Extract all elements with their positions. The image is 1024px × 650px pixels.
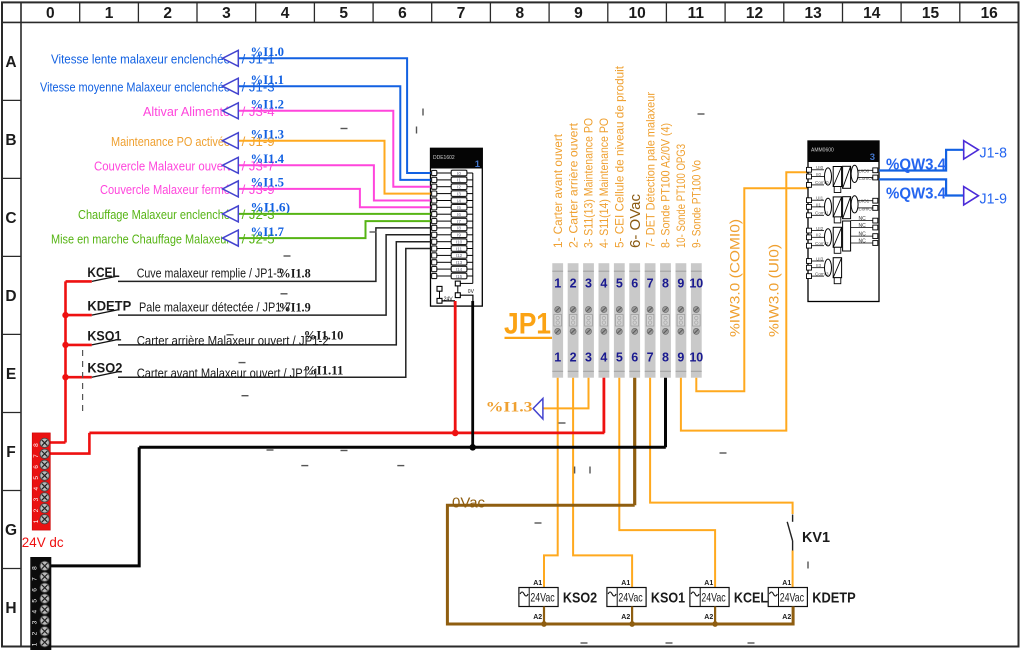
svg-text:1: 1 [33, 519, 40, 523]
svg-text:1: 1 [105, 5, 114, 22]
svg-text:I6: I6 [457, 212, 461, 217]
svg-text:3: 3 [33, 497, 40, 501]
svg-text:UI2: UI2 [816, 226, 824, 231]
svg-text:UI0: UI0 [816, 165, 824, 170]
svg-text:4: 4 [281, 5, 290, 22]
svg-text:4: 4 [600, 277, 607, 291]
svg-text:I14: I14 [456, 267, 463, 272]
svg-text:H: H [5, 600, 16, 617]
svg-text:A1: A1 [533, 580, 542, 587]
svg-text:KV1: KV1 [802, 530, 830, 546]
svg-text:3- S11(13) Maintenance PO: 3- S11(13) Maintenance PO [582, 118, 596, 248]
svg-text:%IW3.0 (COMI0): %IW3.0 (COMI0) [728, 219, 743, 337]
svg-text:8: 8 [662, 277, 669, 291]
svg-text:J1-8: J1-8 [980, 146, 1008, 162]
svg-text:%I1.3: %I1.3 [486, 400, 533, 416]
svg-text:UI3: UI3 [816, 256, 824, 261]
svg-text:KDETP: KDETP [87, 298, 131, 314]
svg-text:10- Sonde PT100 OPG3: 10- Sonde PT100 OPG3 [674, 144, 688, 248]
svg-text:24V dc: 24V dc [22, 534, 64, 550]
svg-text:%IW3.0 (UI0): %IW3.0 (UI0) [767, 244, 782, 337]
svg-text:II0: II0 [816, 172, 822, 177]
svg-text:F: F [6, 444, 15, 461]
svg-text:Maintenance PO activée: Maintenance PO activée [111, 134, 230, 149]
svg-text:15: 15 [922, 5, 940, 22]
svg-text:24Vac: 24Vac [701, 591, 725, 605]
svg-text:14: 14 [863, 5, 881, 22]
svg-text:6: 6 [631, 351, 638, 365]
svg-text:7: 7 [647, 351, 654, 365]
svg-text:II1: II1 [816, 202, 822, 207]
svg-text:5- CEI Cellule de niveau de pr: 5- CEI Cellule de niveau de produit [613, 65, 627, 248]
svg-text:Mise en marche Chauffage Malax: Mise en marche Chauffage Malaxeur [51, 231, 231, 246]
svg-text:Couvercle Malaxeur ouvert: Couvercle Malaxeur ouvert [94, 159, 230, 174]
svg-text:8- Sonde PT100 A2/0V (4): 8- Sonde PT100 A2/0V (4) [659, 123, 673, 248]
svg-text:2- Carter arrière ouvert: 2- Carter arrière ouvert [566, 122, 580, 248]
svg-text:I8: I8 [457, 226, 461, 231]
svg-text:2: 2 [570, 351, 577, 365]
svg-text:KSO1: KSO1 [651, 590, 685, 607]
svg-text:6: 6 [32, 588, 39, 592]
svg-text:I9: I9 [457, 233, 461, 238]
svg-text:%QW3.4: %QW3.4 [886, 157, 946, 174]
svg-text:3: 3 [32, 620, 39, 624]
svg-text:5: 5 [616, 277, 623, 291]
svg-text:Vitesse moyenne Malaxeur encle: Vitesse moyenne Malaxeur enclenchée [40, 80, 230, 95]
svg-text:3: 3 [585, 351, 592, 365]
svg-text:3: 3 [870, 152, 875, 163]
svg-text:Altivar Alimenté: Altivar Alimenté [143, 104, 230, 119]
svg-text:8: 8 [32, 566, 39, 570]
svg-text:NC: NC [859, 232, 867, 238]
svg-text:7: 7 [457, 5, 466, 22]
svg-text:5: 5 [339, 5, 348, 22]
svg-text:I12: I12 [456, 253, 463, 258]
svg-text:I4: I4 [457, 198, 461, 203]
svg-text:7: 7 [33, 454, 40, 458]
svg-text:12: 12 [746, 5, 763, 22]
svg-text:KCEL: KCEL [87, 264, 120, 280]
svg-text:10: 10 [689, 351, 703, 365]
svg-text:A1: A1 [621, 580, 630, 587]
svg-text:D: D [5, 288, 16, 305]
svg-text:3: 3 [585, 277, 592, 291]
svg-text:I2: I2 [457, 185, 461, 190]
svg-text:JP1: JP1 [504, 308, 551, 341]
svg-text:E: E [6, 366, 16, 383]
svg-text:%QW3.4: %QW3.4 [886, 185, 946, 202]
svg-text:UI1: UI1 [816, 196, 824, 201]
svg-text:4: 4 [33, 487, 40, 491]
svg-text:KDETP: KDETP [812, 590, 856, 607]
svg-text:I1: I1 [457, 178, 461, 183]
svg-text:5: 5 [33, 476, 40, 480]
svg-text:5: 5 [32, 599, 39, 603]
svg-text:24Vac: 24Vac [530, 591, 554, 605]
svg-text:A2: A2 [704, 614, 713, 621]
svg-text:Cuve malaxeur remplie / JP1-5: Cuve malaxeur remplie / JP1-5 [137, 267, 283, 281]
svg-text:7: 7 [647, 277, 654, 291]
svg-text:3: 3 [222, 5, 231, 22]
svg-text:A1: A1 [782, 580, 791, 587]
svg-text:J1-9: J1-9 [980, 191, 1008, 207]
svg-text:UIO1: UIO1 [859, 199, 870, 204]
svg-text:%I1.3: %I1.3 [251, 127, 285, 142]
svg-text:7: 7 [32, 577, 39, 581]
svg-text:I0: I0 [457, 171, 461, 176]
svg-text:6: 6 [398, 5, 407, 22]
svg-text:KSO2: KSO2 [563, 590, 597, 607]
svg-text:8: 8 [33, 443, 40, 447]
svg-text:6: 6 [631, 277, 638, 291]
svg-text:I5: I5 [457, 205, 461, 210]
svg-text:%I1.5: %I1.5 [251, 175, 285, 190]
svg-text:A: A [5, 54, 16, 71]
svg-text:C: C [5, 210, 16, 227]
svg-text:9: 9 [677, 351, 684, 365]
svg-text:AMM0600: AMM0600 [811, 148, 834, 154]
svg-text:4- S11(14) Maintenance PO: 4- S11(14) Maintenance PO [597, 118, 611, 248]
svg-text:B: B [5, 132, 16, 149]
svg-text:5: 5 [616, 351, 623, 365]
svg-text:%I1.2: %I1.2 [251, 97, 285, 112]
svg-text:NC: NC [859, 239, 867, 245]
svg-text:Vitesse lente malaxeur enclenc: Vitesse lente malaxeur enclenchée [51, 52, 230, 67]
svg-text:%I1.4: %I1.4 [251, 151, 285, 166]
svg-text:I10: I10 [456, 240, 463, 245]
svg-text:16: 16 [981, 5, 999, 22]
svg-text:G: G [5, 522, 17, 539]
svg-text:%I1.11: %I1.11 [304, 363, 344, 378]
svg-text:A1: A1 [704, 580, 713, 587]
svg-text:2: 2 [33, 508, 40, 512]
svg-text:Pale malaxeur détectée / JP1-7: Pale malaxeur détectée / JP1-7 [139, 300, 291, 314]
svg-text:A2: A2 [533, 614, 542, 621]
svg-text:2: 2 [163, 5, 172, 22]
svg-text:8: 8 [515, 5, 524, 22]
svg-text:II3: II3 [816, 263, 822, 268]
svg-text:NC: NC [859, 223, 867, 229]
svg-text:UIO0: UIO0 [859, 168, 870, 173]
svg-text:%I1.8: %I1.8 [279, 266, 312, 281]
svg-text:%I1.10: %I1.10 [304, 328, 344, 343]
svg-text:24Vac: 24Vac [618, 591, 642, 605]
svg-text:2: 2 [32, 631, 39, 635]
svg-text:%I1.9: %I1.9 [279, 299, 312, 314]
svg-text:KSO2: KSO2 [87, 360, 122, 376]
svg-text:10: 10 [689, 277, 703, 291]
svg-text:0Vac: 0Vac [452, 496, 485, 512]
svg-text:6- OVac: 6- OVac [627, 193, 644, 248]
svg-text:II2: II2 [816, 233, 822, 238]
svg-text:4: 4 [600, 351, 607, 365]
svg-text:A2: A2 [621, 614, 630, 621]
svg-text:Chauffage Malaxeur enclenché: Chauffage Malaxeur enclenché [78, 207, 230, 222]
svg-text:ComO1: ComO1 [859, 206, 875, 211]
svg-text:KCEL: KCEL [734, 590, 768, 607]
svg-text:1: 1 [32, 642, 39, 646]
svg-text:A2: A2 [782, 614, 791, 621]
svg-text:KSO1: KSO1 [87, 327, 121, 343]
svg-text:1: 1 [554, 351, 561, 365]
svg-text:0: 0 [46, 5, 55, 22]
svg-text:0V: 0V [468, 289, 475, 295]
svg-text:DDE1602: DDE1602 [433, 155, 455, 161]
svg-text:6: 6 [33, 465, 40, 469]
svg-text:1: 1 [554, 277, 561, 291]
svg-text:7- DET Détection pale malaxeur: 7- DET Détection pale malaxeur [643, 92, 657, 248]
svg-text:4: 4 [32, 610, 39, 614]
svg-text:NC: NC [859, 216, 867, 222]
svg-text:13: 13 [804, 5, 822, 22]
svg-text:I3: I3 [457, 191, 461, 196]
svg-text:ComO0: ComO0 [859, 176, 875, 181]
svg-text:%I1.6): %I1.6) [251, 200, 291, 215]
svg-text:10: 10 [628, 5, 645, 22]
svg-text:9: 9 [574, 5, 583, 22]
svg-text:9- Sonde PT100 Vo: 9- Sonde PT100 Vo [690, 160, 704, 248]
svg-text:9: 9 [677, 277, 684, 291]
svg-text:I15: I15 [456, 274, 463, 279]
svg-text:Carter arrière Malaxeur ouvert: Carter arrière Malaxeur ouvert / JP1-2 [137, 334, 329, 348]
svg-text:1: 1 [475, 159, 481, 170]
svg-text:%I1.0: %I1.0 [251, 44, 285, 59]
svg-text:1- Carter avant ouvert: 1- Carter avant ouvert [551, 133, 565, 248]
svg-text:8: 8 [662, 351, 669, 365]
svg-text:2: 2 [570, 277, 577, 291]
svg-text:I11: I11 [456, 246, 462, 251]
svg-text:I13: I13 [456, 260, 463, 265]
svg-text:%I1.1: %I1.1 [251, 72, 285, 87]
svg-text:Carter avant Malaxeur ouvert /: Carter avant Malaxeur ouvert / JP1-1 [137, 366, 319, 380]
svg-text:11: 11 [688, 5, 705, 22]
svg-text:24V: 24V [444, 296, 454, 302]
svg-text:Couvercle Malaxeur fermé: Couvercle Malaxeur fermé [100, 182, 230, 197]
svg-text:%I1.7: %I1.7 [251, 224, 285, 239]
svg-text:I7: I7 [457, 219, 461, 224]
svg-text:24Vac: 24Vac [780, 591, 804, 605]
